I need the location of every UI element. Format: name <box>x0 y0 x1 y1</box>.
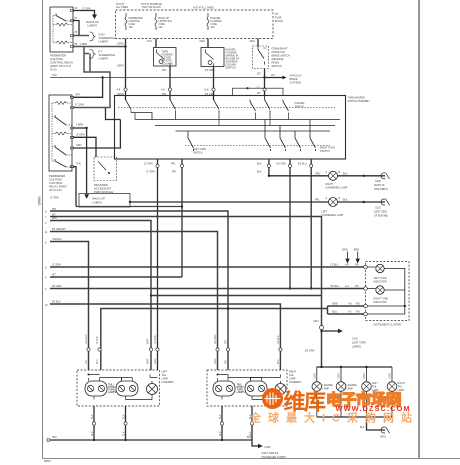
svg-text:GRN: GRN <box>154 358 157 364</box>
connector on x157.5 <box>156 164 159 167</box>
svg-text:BRN: BRN <box>333 303 338 306</box>
connector inline on PPL <box>168 88 171 91</box>
wire flasher U2 output DK GRN <box>213 67 215 101</box>
bus DK GRN WT y230.5 <box>50 232 218 371</box>
svg-text:87: 87 <box>75 17 78 20</box>
svg-text:20A: 20A <box>159 26 164 29</box>
cluster connector pin 2 <box>364 287 368 291</box>
node junction fuse drop <box>124 45 126 47</box>
svg-text:BLK: BLK <box>91 414 94 419</box>
svg-text:1 BRN: 1 BRN <box>76 124 83 127</box>
wire left cornering to ground <box>338 201 386 203</box>
lamp right cornering filament <box>330 173 336 179</box>
node y308.5 junction <box>227 307 229 309</box>
svg-text:20A: 20A <box>211 26 216 29</box>
svg-text:D-8: D-8 <box>205 89 210 92</box>
svg-text:A-4: A-4 <box>345 285 349 288</box>
lamp license 1 <box>312 382 322 392</box>
svg-text:PPL: PPL <box>172 171 177 174</box>
svg-text:LT GRN: LT GRN <box>144 163 153 166</box>
svg-text:PPL: PPL <box>315 199 320 202</box>
right tail lamp assembly dashed box <box>207 370 287 406</box>
flasher U1 turn flasher box <box>154 48 177 67</box>
svg-text:G401: G401 <box>380 436 387 439</box>
svg-text:全球最大IC采购网站: 全球最大IC采购网站 <box>249 411 419 425</box>
wire link right row <box>228 378 262 381</box>
wire rear ground drop <box>367 417 386 430</box>
rear lamp bottom stubs <box>317 392 392 418</box>
ground G201 <box>381 199 390 206</box>
switch output DK BLU x311.2 <box>310 159 312 289</box>
svg-text:1 BRN: 1 BRN <box>117 65 124 68</box>
node bottom bus b <box>124 439 126 441</box>
node S1 bus junction <box>263 76 265 78</box>
svg-text:BLK: BLK <box>91 431 94 436</box>
wire gray feed y206.5 <box>76 206 182 208</box>
svg-text:ORN: ORN <box>338 373 341 379</box>
wires below right box BLK <box>222 406 252 440</box>
watermark logo circle <box>262 388 283 409</box>
svg-text:LAMPS: LAMPS <box>99 57 109 61</box>
relay K2 blade 1 <box>55 115 66 125</box>
connectors below left box <box>92 422 95 425</box>
svg-text:LAMPS: LAMPS <box>108 391 117 394</box>
switch blade row2 e <box>310 120 316 152</box>
svg-text:30: 30 <box>75 7 78 10</box>
connector C2 inline on 1 BRN <box>124 88 127 91</box>
svg-text:BLK: BLK <box>257 171 262 174</box>
switch output BLK x268.9 <box>269 159 329 176</box>
lamp left tail rear <box>362 382 372 392</box>
svg-text:ORN: ORN <box>389 373 392 379</box>
svg-text:DK BLU: DK BLU <box>277 335 280 344</box>
svg-text:15A: 15A <box>129 26 134 29</box>
connector on x268.9 <box>267 164 270 167</box>
svg-text:A: A <box>326 197 328 200</box>
wire K2 pin4 to RAP module <box>74 137 97 157</box>
svg-text:SYSTEMS: SYSTEMS <box>290 82 302 85</box>
svg-text:(LEFT TURN: (LEFT TURN <box>352 342 366 345</box>
svg-text:DK GRN: DK GRN <box>305 350 315 353</box>
svg-text:A-9: A-9 <box>161 89 165 92</box>
svg-text:7: 7 <box>45 216 47 219</box>
svg-text:LT GRN: LT GRN <box>75 104 84 107</box>
svg-text:LOW: LOW <box>352 338 358 341</box>
svg-text:LAMP: LAMP <box>347 388 354 391</box>
wire y308.5 with corner down x100.8 <box>101 309 328 371</box>
lamp left cornering <box>329 198 338 207</box>
svg-text:DK GRN: DK GRN <box>277 163 287 166</box>
relay K1 contact blade <box>56 14 66 22</box>
connector C412 on gray vertical <box>320 326 324 330</box>
svg-text:ORN: ORN <box>363 373 366 379</box>
relay K2 pins <box>71 96 74 167</box>
svg-text:DK BLU: DK BLU <box>331 285 340 288</box>
arrow G400 <box>258 444 263 449</box>
wire K2 pin1 GRY up to bus <box>74 78 103 98</box>
brace KT screening lamps <box>90 50 96 59</box>
wires lamp1 <box>367 267 405 314</box>
svg-text:85: 85 <box>75 31 78 34</box>
node x290 join <box>289 287 291 289</box>
wire y295.5 tap <box>151 295 322 297</box>
relay K2 perimeter lighting control relay 2 box <box>49 95 72 171</box>
wire to low arrow <box>322 330 339 332</box>
page border bottom <box>43 458 460 460</box>
svg-text:GRY: GRY <box>75 94 81 97</box>
svg-text:SWITCH: SWITCH <box>193 152 203 155</box>
bus LT GRN y267 <box>50 266 364 268</box>
wire branch to KT brace <box>84 54 90 73</box>
svg-text:LAMPS: LAMPS <box>88 24 98 28</box>
relay K1 internal links <box>53 16 72 43</box>
svg-text:LT GRN: LT GRN <box>82 8 91 11</box>
switch blade row2 c <box>280 126 286 152</box>
svg-text:DK GRN: DK GRN <box>214 334 217 344</box>
wire right cornering to ground <box>338 175 386 177</box>
svg-text:LT GRN: LT GRN <box>52 264 61 267</box>
switch output DK GRN x290 <box>289 159 291 289</box>
node GRY bus join <box>101 76 103 78</box>
wire internal link1 <box>131 113 152 120</box>
switch blade row2 d <box>295 131 301 151</box>
svg-text:HOT AT ALL TIMES: HOT AT ALL TIMES <box>193 7 214 10</box>
svg-text:WT: WT <box>257 73 261 76</box>
svg-text:LAMPS): LAMPS) <box>352 346 361 349</box>
svg-text:BLOCK: BLOCK <box>275 20 284 23</box>
connector inline WT <box>263 88 266 91</box>
svg-text:LAMPS: LAMPS <box>99 40 109 44</box>
rear lamp stubs <box>317 367 392 381</box>
switch blade row1 a <box>126 96 132 113</box>
node g201 <box>363 201 365 203</box>
lamp left turn indicator <box>376 264 384 272</box>
svg-text:LAMPS: LAMPS <box>93 201 103 205</box>
svg-text:A-7: A-7 <box>348 311 352 314</box>
svg-text:CORNERING LAMP: CORNERING LAMP <box>326 187 348 190</box>
svg-text:COLUMN): COLUMN) <box>162 63 173 66</box>
svg-text:8: 8 <box>45 211 47 214</box>
left box internal top links <box>89 375 158 378</box>
node right box a <box>217 374 219 376</box>
svg-text:YEL/BLK: YEL/BLK <box>52 238 62 241</box>
lamp right turn indicator <box>376 286 384 294</box>
wire link row y377.5 <box>100 378 133 381</box>
labels ORN rear <box>314 373 392 379</box>
svg-text:4: 4 <box>45 277 47 280</box>
svg-text:CORNERING LAMP: CORNERING LAMP <box>322 214 344 217</box>
svg-text:08643: 08643 <box>37 196 41 206</box>
box around back-up lamps dest <box>79 194 130 208</box>
svg-text:(PART OF: (PART OF <box>374 184 385 187</box>
bus WHT y222.5 <box>50 221 151 371</box>
node housing <box>246 87 248 89</box>
bus WT y216.5 left end joins x330 <box>50 217 322 368</box>
node pin3 <box>85 127 87 129</box>
switch S1 brake transmission shift interlock dashed box <box>253 46 269 69</box>
svg-text:08643: 08643 <box>44 460 51 463</box>
arrow low <box>338 329 343 334</box>
svg-text:A: A <box>326 171 328 174</box>
svg-text:P/U: P/U <box>356 303 360 306</box>
wire relay K1 pin86 feed 1 BRN <box>74 46 126 48</box>
switch blade row1 f <box>283 100 289 112</box>
svg-text:WT: WT <box>271 74 275 77</box>
arrows into cluster <box>346 252 359 263</box>
cluster wires 3 and 4 <box>328 306 364 314</box>
page border right <box>418 0 420 459</box>
node bottom bus a <box>93 439 95 441</box>
svg-text:PPL: PPL <box>162 69 167 72</box>
svg-text:ASSEMBLY: ASSEMBLY <box>289 381 302 384</box>
bus PPL y211 <box>50 211 228 370</box>
wire internal drops <box>135 113 289 126</box>
svg-text:BLU: BLU <box>333 311 338 314</box>
node left box a <box>88 374 90 376</box>
bus wire TAN y77 <box>50 77 265 79</box>
svg-text:INDICATOR: INDICATOR <box>374 281 387 284</box>
node g200 <box>363 175 365 177</box>
lamp left cornering filament <box>330 199 336 205</box>
svg-text:A-0: A-0 <box>345 264 349 267</box>
node back-up box out <box>129 201 131 203</box>
wire LT GRN relay K1 pin30 to back-up lamps <box>74 11 95 15</box>
svg-text:SWITCH): SWITCH) <box>226 67 236 70</box>
connectors below right box <box>220 422 223 425</box>
relay K2 coil 1 <box>55 102 67 105</box>
connector on x182 <box>180 164 183 167</box>
fuse F1 perimeter lighting <box>125 13 127 30</box>
svg-text:WHT: WHT <box>147 358 150 364</box>
lamp right tail stop turn 1 <box>213 381 235 396</box>
svg-text:WT: WT <box>257 92 261 95</box>
left tail lamp assembly dashed box <box>77 370 160 406</box>
flasher U2 internals <box>206 50 214 67</box>
mech link dashed row2 <box>185 145 330 147</box>
svg-text:LT GRN: LT GRN <box>146 171 155 174</box>
cluster connector pin 1 <box>364 265 368 269</box>
svg-text:BRN: BRN <box>343 249 348 252</box>
nodes rear bus <box>320 366 322 368</box>
wire left backup bottom <box>126 395 153 400</box>
rear lamp bus top <box>317 366 393 368</box>
svg-text:OF ENGINE): OF ENGINE) <box>374 215 388 218</box>
svg-text:(LEFT SIDE OF: (LEFT SIDE OF <box>262 452 279 455</box>
bottom ground bus BLK <box>50 440 258 446</box>
node cornering feed <box>268 175 270 177</box>
arrow antilock <box>283 76 287 80</box>
svg-text:ORN: ORN <box>314 373 317 379</box>
svg-text:10: 10 <box>45 304 48 307</box>
svg-text:SWITCH: SWITCH <box>295 106 305 109</box>
rotated wire labels above connectors <box>85 334 280 364</box>
lamp right tail rear <box>387 382 397 392</box>
svg-text:DK GRN: DK GRN <box>205 69 215 72</box>
svg-text:B: B <box>339 171 341 174</box>
node x157.5 lt grn bus <box>156 266 158 268</box>
lamp license 2 <box>336 382 346 392</box>
module RAP dot <box>108 172 110 174</box>
lamp left tail stop turn 1 <box>85 381 107 396</box>
svg-text:BLK: BLK <box>247 436 252 439</box>
wire internal bus y125.5 <box>155 125 335 127</box>
svg-text:ORG: ORG <box>200 40 206 43</box>
svg-text:5: 5 <box>45 267 47 270</box>
switch output PPL x182 <box>181 159 183 277</box>
svg-text:B: B <box>339 197 341 200</box>
switch output LT GRN x157.5 <box>157 159 159 370</box>
svg-text:P/U: P/U <box>355 285 359 288</box>
svg-text:A-6: A-6 <box>348 303 352 306</box>
svg-text:G201: G201 <box>375 207 382 210</box>
node cluster v <box>404 305 406 307</box>
switch blade row1 c <box>214 96 220 113</box>
connector bracket under switch box <box>106 108 121 120</box>
fuse block I/P dashed box <box>116 10 274 39</box>
svg-text:INDICATOR: INDICATOR <box>374 301 387 304</box>
svg-text:GRN: GRN <box>214 358 217 364</box>
svg-text:PPL: PPL <box>171 163 176 166</box>
svg-text:P/U: P/U <box>355 264 359 267</box>
flasher U2 hazard flasher box <box>201 48 224 67</box>
node arrow low beams <box>320 330 322 332</box>
svg-text:BLK: BLK <box>219 414 222 419</box>
wire internal bus y131 <box>176 130 331 132</box>
labels BLK below left box <box>91 414 126 436</box>
svg-text:6: 6 <box>45 242 47 245</box>
lamp right back-up <box>275 384 286 395</box>
wire fuse F2 drop TAN <box>155 39 157 48</box>
node y295.5 junction <box>150 294 152 296</box>
svg-text:PPL: PPL <box>225 339 228 344</box>
svg-text:BLK: BLK <box>219 431 222 436</box>
wire left cornering feed <box>130 201 329 203</box>
wire K2 pin6 down <box>74 167 77 207</box>
wire S1 output WT <box>264 69 266 96</box>
wire K2 pin3 stub <box>74 127 87 129</box>
svg-text:P/U: P/U <box>356 311 360 314</box>
svg-text:DK BLU: DK BLU <box>52 301 61 304</box>
svg-text:A-8: A-8 <box>117 89 121 92</box>
page border left <box>42 0 44 459</box>
node y206.5 join <box>181 205 183 207</box>
svg-text:PPL: PPL <box>52 208 57 211</box>
relay K1 coil 2 <box>56 41 68 44</box>
bus YEL BLK y240 <box>50 242 89 371</box>
wire relay K1 pin87 jog <box>74 21 80 36</box>
wire flasher U1 output PPL <box>169 66 171 100</box>
lamp right tail stop turn 2 <box>245 381 267 396</box>
svg-text:WWW.DZSC.COM: WWW.DZSC.COM <box>336 404 411 413</box>
svg-text:WT: WT <box>52 274 56 277</box>
svg-text:11: 11 <box>45 231 48 234</box>
arrow back-up lamps 2 <box>84 194 89 198</box>
svg-text:SWITCH: SWITCH <box>320 150 330 153</box>
bus DK GRN y288.5 <box>50 288 364 290</box>
svg-text:YEL/BLK: YEL/BLK <box>85 334 88 344</box>
svg-text:TAN: TAN <box>147 40 152 43</box>
relay K1 pins <box>71 10 74 48</box>
connector on x311.2 <box>310 164 313 167</box>
svg-text:PPL: PPL <box>225 359 228 364</box>
svg-text:(LEFT SIDE: (LEFT SIDE <box>374 211 387 214</box>
svg-text:ORN: ORN <box>76 144 82 147</box>
svg-text:INSTRUMENT CLUSTER: INSTRUMENT CLUSTER <box>374 324 402 327</box>
svg-text:YEL: YEL <box>85 359 88 364</box>
svg-text:DK GRN/WT: DK GRN/WT <box>52 228 66 231</box>
ground G200 <box>381 173 390 180</box>
svg-text:SWITCH): SWITCH) <box>272 65 282 68</box>
svg-text:OF R.A.P.): OF R.A.P.) <box>49 188 62 192</box>
switch blade row1 b <box>170 96 176 113</box>
svg-text:1 BRN: 1 BRN <box>80 43 87 46</box>
svg-text:ORG: ORG <box>250 40 256 43</box>
svg-text:LAMPS: LAMPS <box>237 391 246 394</box>
svg-text:ORG: ORG <box>315 173 321 176</box>
cluster connector pin 3 <box>364 304 368 308</box>
svg-text:3: 3 <box>45 222 47 225</box>
module RAP blade <box>98 162 110 172</box>
terminal left end <box>47 439 49 441</box>
switch blade row2 b <box>265 120 271 152</box>
lamp left tail stop turn 2 <box>116 381 138 396</box>
relay K2 internal links <box>52 103 72 167</box>
svg-text:BLK: BLK <box>360 426 365 429</box>
svg-text:LT GRN: LT GRN <box>154 335 157 344</box>
switch blade row2 a <box>188 131 194 151</box>
svg-text:BLK: BLK <box>343 173 348 176</box>
bus WT y277 <box>50 276 182 278</box>
svg-text:2: 2 <box>45 288 47 291</box>
svg-text:WHT: WHT <box>52 217 58 220</box>
brace KOD screening lamps <box>90 32 96 41</box>
svg-text:BLK: BLK <box>257 163 262 166</box>
relay K2 blade 2 <box>55 145 66 155</box>
svg-text:BLK: BLK <box>343 199 348 202</box>
rear bottom bus <box>317 416 392 418</box>
svg-text:LT BLU: LT BLU <box>331 264 339 267</box>
svg-text:ALL TIMES: ALL TIMES <box>116 6 128 9</box>
svg-text:86: 86 <box>75 43 78 46</box>
lamp right cornering <box>329 171 338 180</box>
wire K2 pin3 down to back-up arrow <box>86 128 88 194</box>
svg-text:LT GRN: LT GRN <box>76 134 85 137</box>
relay K1 coil 1 <box>56 23 68 26</box>
switch blade row1 d <box>250 100 256 112</box>
svg-text:C412: C412 <box>313 320 319 323</box>
svg-text:FWD HRNS): FWD HRNS) <box>374 188 388 191</box>
mech link dashed row1 <box>118 107 335 109</box>
svg-text:BLU: BLU <box>96 359 99 364</box>
wire branch to antilock brake <box>265 77 283 79</box>
relay K1 perimeter lighting control relay box <box>50 7 73 52</box>
connector inline hazard out <box>212 88 215 91</box>
svg-text:DK GRN: DK GRN <box>52 285 62 288</box>
connector housing on switch box top <box>233 88 284 95</box>
labels BLK below right box <box>219 414 252 436</box>
wire internal bus y119.5 <box>135 119 340 121</box>
svg-text:BRN: BRN <box>354 249 359 252</box>
cluster connector pin 4 <box>364 312 368 316</box>
wire lamp2 <box>367 289 405 291</box>
svg-text:BLK: BLK <box>122 431 125 436</box>
svg-text:SYS): SYS) <box>50 68 57 72</box>
connector on x290 <box>288 164 291 167</box>
svg-text:维库: 维库 <box>284 390 327 415</box>
svg-text:TAN: TAN <box>52 74 57 77</box>
svg-text:BLK: BLK <box>53 436 58 439</box>
node bottom bus c <box>221 439 223 441</box>
